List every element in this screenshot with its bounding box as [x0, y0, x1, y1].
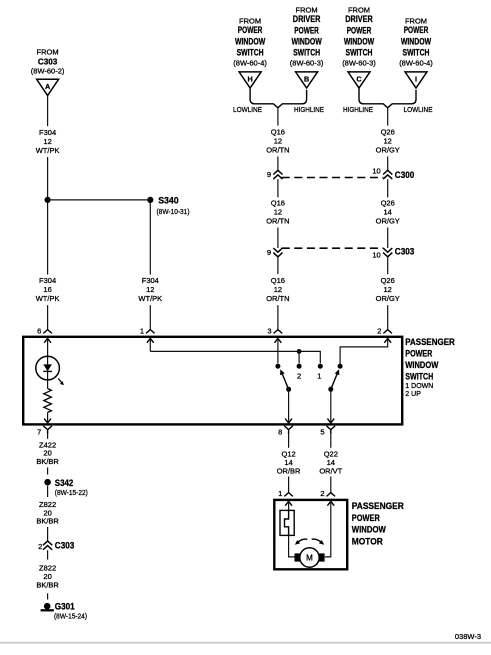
svg-text:(8W-10-31): (8W-10-31): [157, 207, 190, 216]
svg-text:WINDOW: WINDOW: [405, 360, 438, 371]
svg-text:MOTOR: MOTOR: [352, 536, 383, 547]
svg-text:14: 14: [384, 207, 392, 216]
svg-text:WT/PK: WT/PK: [36, 294, 60, 303]
svg-text:1: 1: [140, 326, 144, 335]
svg-text:F304: F304: [39, 128, 56, 137]
svg-text:BK/BR: BK/BR: [36, 457, 59, 466]
svg-text:C300: C300: [395, 170, 415, 180]
svg-text:6: 6: [37, 326, 41, 335]
svg-text:12: 12: [146, 285, 154, 294]
svg-text:12: 12: [384, 285, 392, 294]
svg-text:9: 9: [267, 170, 271, 179]
svg-text:WINDOW: WINDOW: [344, 37, 375, 47]
svg-text:SWITCH: SWITCH: [346, 48, 373, 58]
svg-text:5: 5: [320, 427, 324, 436]
svg-text:SWITCH: SWITCH: [293, 48, 320, 58]
svg-text:WINDOW: WINDOW: [291, 37, 322, 47]
svg-text:(8W-60-2): (8W-60-2): [31, 67, 65, 76]
svg-text:12: 12: [274, 137, 282, 146]
svg-text:DRIVER: DRIVER: [345, 14, 373, 24]
svg-text:10: 10: [372, 251, 380, 260]
svg-text:Q16: Q16: [271, 276, 285, 285]
svg-text:Q26: Q26: [381, 276, 395, 285]
svg-text:POWER: POWER: [347, 25, 372, 35]
svg-text:C303: C303: [395, 247, 415, 257]
svg-text:2: 2: [38, 542, 42, 551]
svg-text:038W-3: 038W-3: [455, 632, 481, 641]
svg-text:A: A: [45, 82, 50, 91]
svg-text:WINDOW: WINDOW: [401, 36, 432, 46]
svg-text:S342: S342: [55, 478, 74, 488]
svg-text:DRIVER: DRIVER: [293, 14, 321, 24]
svg-text:PASSENGER: PASSENGER: [405, 337, 455, 348]
svg-text:Q26: Q26: [381, 198, 395, 207]
svg-text:HIGHLINE: HIGHLINE: [294, 105, 324, 114]
svg-text:10: 10: [372, 166, 380, 175]
svg-text:OR/TN: OR/TN: [266, 146, 289, 155]
svg-text:F304: F304: [142, 276, 159, 285]
svg-text:2: 2: [297, 372, 301, 381]
svg-text:POWER: POWER: [404, 25, 429, 35]
svg-text:12: 12: [384, 137, 392, 146]
svg-text:LOWLINE: LOWLINE: [233, 105, 262, 114]
svg-text:Q26: Q26: [381, 128, 395, 137]
svg-text:OR/TN: OR/TN: [266, 216, 289, 225]
svg-text:(8W-15-24): (8W-15-24): [54, 612, 87, 621]
svg-text:(8W-60-4): (8W-60-4): [233, 59, 267, 68]
svg-text:OR/GY: OR/GY: [376, 146, 400, 155]
svg-text:SWITCH: SWITCH: [405, 371, 433, 382]
svg-text:12: 12: [43, 137, 51, 146]
svg-text:2: 2: [377, 326, 381, 335]
svg-text:7: 7: [37, 427, 41, 436]
svg-text:(8W-60-3): (8W-60-3): [290, 59, 324, 68]
svg-text:OR/BR: OR/BR: [277, 467, 301, 476]
svg-text:POWER: POWER: [405, 348, 432, 359]
svg-text:8: 8: [278, 427, 282, 436]
svg-text:WT/PK: WT/PK: [36, 146, 60, 155]
svg-text:OR/TN: OR/TN: [266, 294, 289, 303]
svg-text:(8W-60-4): (8W-60-4): [399, 59, 433, 68]
svg-text:3: 3: [267, 326, 271, 335]
svg-text:C303: C303: [38, 57, 58, 67]
svg-text:POWER: POWER: [352, 513, 380, 524]
svg-text:G301: G301: [55, 602, 75, 612]
svg-text:SWITCH: SWITCH: [237, 47, 264, 57]
svg-text:B: B: [304, 75, 309, 84]
svg-text:Q16: Q16: [271, 128, 285, 137]
svg-text:1: 1: [317, 372, 321, 381]
svg-text:I: I: [415, 75, 417, 84]
svg-text:2: 2: [320, 489, 324, 498]
svg-text:12: 12: [274, 285, 282, 294]
svg-text:M: M: [306, 554, 313, 563]
svg-text:OR/GY: OR/GY: [376, 216, 400, 225]
svg-text:SWITCH: SWITCH: [403, 47, 430, 57]
svg-text:9: 9: [267, 248, 271, 257]
svg-text:WINDOW: WINDOW: [352, 525, 386, 536]
svg-text:S340: S340: [158, 195, 179, 205]
svg-text:POWER: POWER: [238, 25, 263, 35]
svg-text:H: H: [247, 75, 252, 84]
svg-text:C303: C303: [55, 540, 75, 550]
svg-text:HIGHLINE: HIGHLINE: [343, 105, 373, 114]
svg-text:BK/BR: BK/BR: [36, 581, 59, 590]
svg-text:16: 16: [43, 285, 51, 294]
svg-text:1: 1: [278, 489, 282, 498]
svg-text:1 DOWN: 1 DOWN: [405, 383, 433, 390]
svg-text:FROM: FROM: [37, 47, 59, 56]
svg-text:F304: F304: [39, 276, 56, 285]
svg-text:OR/VT: OR/VT: [319, 467, 342, 476]
svg-text:BK/BR: BK/BR: [36, 517, 59, 526]
svg-text:(8W-15-22): (8W-15-22): [55, 488, 88, 497]
svg-text:WT/PK: WT/PK: [138, 294, 162, 303]
svg-text:Q16: Q16: [271, 198, 285, 207]
svg-text:OR/GY: OR/GY: [376, 294, 400, 303]
svg-text:PASSENGER: PASSENGER: [352, 501, 404, 512]
svg-text:12: 12: [274, 207, 282, 216]
svg-text:C: C: [356, 75, 361, 84]
svg-text:LOWLINE: LOWLINE: [404, 105, 433, 114]
svg-text:WINDOW: WINDOW: [235, 36, 266, 46]
svg-text:(8W-60-3): (8W-60-3): [342, 59, 376, 68]
svg-text:POWER: POWER: [294, 25, 319, 35]
svg-text:2 UP: 2 UP: [405, 391, 421, 398]
